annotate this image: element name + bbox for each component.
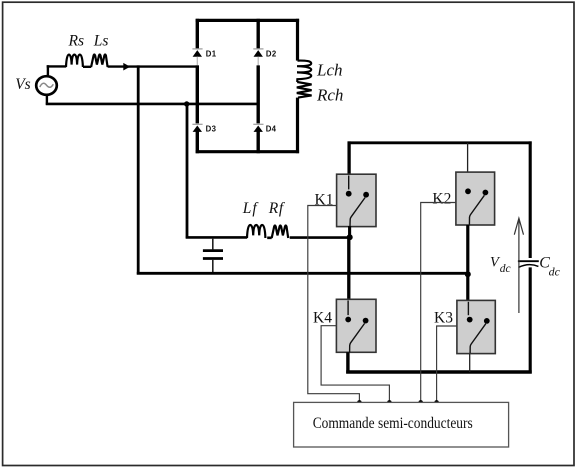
node junction K1 out [347, 234, 353, 240]
wire K1 top leg [347, 141, 350, 175]
svg-text:Rf: Rf [268, 200, 286, 217]
wire bottom (source to bridge mid leg) [46, 103, 259, 106]
svg-text:dc: dc [549, 265, 561, 279]
svg-text:Vs: Vs [15, 76, 31, 93]
svg-text:Ls: Ls [93, 32, 109, 49]
wire K2 bottom to K3 [466, 225, 469, 302]
wire top (source to bridge) [47, 65, 199, 68]
node K4 control dot [387, 400, 392, 405]
wire bridge bottom [196, 150, 299, 153]
inductor Ls [91, 55, 108, 68]
wire dc minus drop (junction to filter) [186, 103, 189, 239]
inductor Lf [247, 225, 265, 238]
svg-text:K4: K4 [313, 310, 332, 327]
inductor Lch [297, 61, 311, 82]
wire K1 bottom [348, 226, 351, 238]
wire K3 control [437, 326, 457, 402]
switch K1 [337, 174, 376, 226]
inverter right bus lower [529, 267, 532, 373]
wire bridge middle lower [257, 65, 260, 153]
diode D1 [192, 49, 202, 66]
diode D3 [192, 124, 202, 132]
svg-text:D3: D3 [206, 124, 217, 133]
svg-text:D1: D1 [206, 49, 217, 58]
inverter right bus upper [529, 141, 532, 258]
svg-text:Rch: Rch [316, 86, 343, 105]
capacitor Cdc [518, 261, 539, 267]
svg-text:Rs: Rs [68, 32, 85, 49]
svg-text:K3: K3 [434, 310, 453, 327]
wire bridge top [196, 19, 299, 22]
resistor Rf [272, 226, 289, 239]
wire bridge middle upper [257, 19, 260, 49]
wire K2 control [421, 203, 456, 402]
node K3 control dot [434, 400, 439, 405]
wire K4 control [321, 326, 389, 402]
wire K2 top leg [467, 143, 469, 187]
node K2 control dot [418, 400, 423, 405]
wire K1-K4 link [347, 237, 350, 300]
wire K3 bottom thin [469, 354, 471, 372]
wire bridge left lower [196, 65, 199, 153]
node junction dot left [184, 101, 189, 106]
wire return left vertical [137, 65, 140, 274]
capacitor filter [203, 238, 223, 274]
command box [294, 402, 509, 447]
diode D2 [253, 49, 263, 66]
inverter bottom bus [346, 370, 532, 373]
wire bridge right lower [296, 98, 299, 154]
source Vs [36, 76, 57, 95]
wire bridge right upper [296, 19, 299, 61]
svg-text:D4: D4 [266, 124, 277, 133]
wire source top lead [47, 65, 49, 76]
switch K3 [457, 300, 495, 353]
svg-text:Lf: Lf [242, 200, 260, 217]
svg-text:dc: dc [500, 263, 511, 275]
arrow on wire [123, 63, 130, 71]
switch K4 [336, 299, 376, 352]
resistor Rs [66, 55, 83, 67]
node K1 control dot [357, 400, 362, 405]
wire bridge left upper [196, 19, 199, 49]
svg-text:Commande semi-conducteurs: Commande semi-conducteurs [313, 415, 473, 432]
svg-text:K1: K1 [315, 192, 334, 209]
resistor Rch [297, 82, 312, 98]
wire return horizontal [137, 272, 469, 275]
node junction K2 out [465, 271, 471, 277]
wire filter line [186, 236, 351, 239]
wire K4 bottom [346, 352, 349, 373]
switch K2 [456, 172, 495, 225]
inverter top bus [348, 141, 532, 144]
wire source bottom lead [46, 95, 48, 105]
svg-text:Lch: Lch [316, 61, 343, 80]
svg-text:D2: D2 [266, 49, 277, 58]
diode D4 [253, 124, 263, 132]
svg-text:K2: K2 [432, 191, 451, 208]
wire K1 control [308, 206, 360, 402]
arrow Vdc [514, 218, 523, 313]
